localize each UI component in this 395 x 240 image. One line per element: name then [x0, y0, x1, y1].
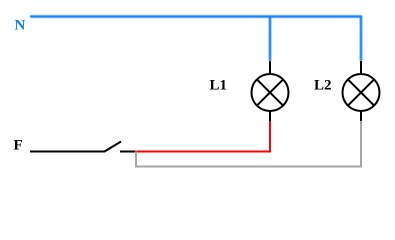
wire gray bottom horizontal: [135, 166, 362, 168]
lamp L2: [343, 74, 380, 111]
wire L1 bottom terminal stub (black): [269, 110, 271, 121]
lamp L1: [252, 74, 289, 111]
wire switched live horizontal (red): [135, 151, 271, 153]
svg-text:N: N: [15, 18, 26, 34]
wire neutral drop to L2 (blue): [360, 17, 362, 62]
wire L1 return vertical (red): [269, 121, 271, 153]
wire L1 top terminal stub (black): [269, 61, 271, 75]
wire phase horizontal (black): [30, 151, 105, 153]
switch S1 blade (open): [105, 142, 122, 152]
svg-text:F: F: [14, 138, 23, 154]
wire L2 bottom terminal stub (black): [360, 110, 362, 121]
wire gray junction drop: [135, 152, 137, 167]
wire L2 top terminal stub (black): [360, 61, 362, 75]
svg-text:L2: L2: [314, 78, 332, 94]
wire neutral drop to L1 (blue): [269, 17, 271, 62]
wire neutral top horizontal (blue): [30, 17, 362, 62]
wire L2 return vertical (gray): [360, 121, 362, 168]
switch S1 fixed contact: [120, 151, 135, 153]
svg-text:L1: L1: [210, 78, 228, 94]
